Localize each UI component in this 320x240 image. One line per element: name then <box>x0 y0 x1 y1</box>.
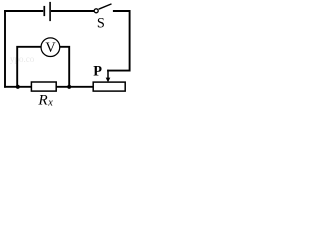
wire top-left (left edge to battery) <box>4 10 43 12</box>
rheostat P box <box>93 82 125 91</box>
resistor Rx box <box>31 82 56 91</box>
wire voltmeter loop left <box>17 47 41 87</box>
svg-text:P: P <box>93 64 102 80</box>
svg-text:ypo.co: ypo.co <box>10 54 35 64</box>
wire bottom <box>4 86 93 88</box>
voltmeter V circle <box>41 38 60 57</box>
svg-text:x: x <box>47 97 53 108</box>
wire left vertical <box>4 10 6 88</box>
svg-text:R: R <box>37 91 48 108</box>
wire voltmeter loop right <box>60 47 69 87</box>
switch lever <box>99 4 112 9</box>
slider arrowhead <box>106 78 111 83</box>
svg-text:V: V <box>45 40 56 56</box>
svg-text:S: S <box>97 16 105 32</box>
battery positive plate <box>49 2 51 21</box>
node junction dot left <box>16 85 20 89</box>
wire battery to switch <box>51 10 94 12</box>
wire switch to top-right corner <box>113 10 131 12</box>
switch S pivot circle <box>94 9 98 13</box>
wire jog to slider <box>107 70 130 72</box>
node junction dot right <box>67 85 71 89</box>
background <box>0 0 135 108</box>
wire right vertical <box>129 10 131 71</box>
slider stem <box>107 70 109 79</box>
battery negative plate <box>43 6 45 16</box>
